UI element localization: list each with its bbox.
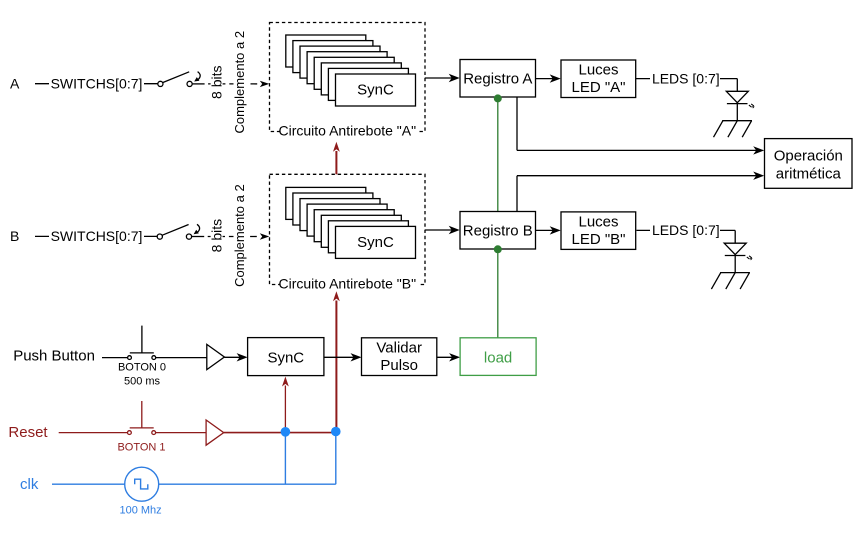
svg-text:Reset: Reset bbox=[8, 424, 48, 441]
wire Registro B to Luces LED B bbox=[536, 229, 557, 231]
svg-text:BOTON 0: BOTON 0 bbox=[118, 362, 166, 374]
block Validar Pulso bbox=[362, 338, 437, 376]
wire BOTON 0 to buffer bbox=[155, 357, 207, 359]
junction dot clk-reset 2 (blue) bbox=[331, 427, 341, 437]
svg-text:100 Mhz: 100 Mhz bbox=[119, 504, 161, 516]
debounce block B (dashed) bbox=[270, 174, 426, 284]
wire clk riser 1 (blue) bbox=[284, 432, 286, 484]
wire Validar Pulso to load bbox=[437, 356, 456, 358]
push button BOTON 0 bbox=[128, 326, 156, 360]
wire B to switch bbox=[35, 235, 158, 237]
switch SW-B bbox=[157, 224, 199, 239]
wire Registro B to Operacion aritmetica bbox=[517, 172, 764, 212]
svg-text:LEDS [0:7]: LEDS [0:7] bbox=[652, 222, 720, 238]
svg-text:Validar: Validar bbox=[376, 339, 422, 356]
wire reset-clk to debounce B (red) bbox=[333, 291, 340, 431]
block Luces LED A bbox=[561, 60, 636, 98]
block SynC (pulse) bbox=[248, 338, 324, 376]
svg-text:Complemento a 2: Complemento a 2 bbox=[232, 31, 247, 134]
svg-text:B: B bbox=[10, 228, 19, 244]
junction dot clk-reset 1 (blue) bbox=[281, 427, 291, 437]
label 8 bits (A) bbox=[211, 65, 223, 101]
label Complemento a 2 (B) bbox=[234, 184, 248, 287]
svg-text:Pulso: Pulso bbox=[380, 357, 418, 374]
wire Registro A to Operacion aritmetica bbox=[517, 97, 764, 154]
label 8 bits (B) bbox=[211, 218, 223, 254]
label Circuito Antirebote B bbox=[280, 278, 419, 292]
label LEDS [0:7] (A) bbox=[650, 71, 720, 86]
svg-text:Complemento a 2: Complemento a 2 bbox=[232, 184, 247, 287]
svg-text:8 bits: 8 bits bbox=[209, 219, 225, 252]
wire BOTON 1 to buffer bbox=[155, 432, 206, 434]
svg-text:8 bits: 8 bits bbox=[209, 65, 225, 98]
block Luces LED B bbox=[561, 212, 636, 250]
LED D-B bbox=[724, 243, 752, 272]
wire SynC to Validar Pulso bbox=[324, 356, 358, 358]
svg-text:SynC: SynC bbox=[357, 234, 394, 251]
svg-text:BOTON 1: BOTON 1 bbox=[117, 442, 165, 454]
buffer U-RST bbox=[206, 420, 224, 445]
wire load net (green) from Registro A to load box bbox=[497, 98, 499, 337]
svg-text:Circuito Antirebote "B": Circuito Antirebote "B" bbox=[279, 276, 417, 292]
label SWITCHS[0:7] (A) bbox=[49, 75, 144, 90]
wire oscillator to risers (blue) bbox=[159, 483, 336, 485]
wire debounce B to debounce A (red) bbox=[333, 142, 340, 175]
wire Luces LED B to LEDs B bbox=[637, 229, 736, 231]
junction dot Registro B load (green) bbox=[494, 245, 502, 253]
LED D-A bbox=[726, 91, 754, 120]
svg-text:Registro B: Registro B bbox=[463, 223, 533, 240]
svg-text:clk: clk bbox=[20, 476, 39, 493]
svg-text:Push Button: Push Button bbox=[13, 347, 95, 364]
block load (green) bbox=[460, 338, 536, 376]
svg-text:SynC: SynC bbox=[357, 82, 394, 99]
svg-text:LED "A": LED "A" bbox=[571, 79, 625, 96]
svg-text:LED "B": LED "B" bbox=[571, 231, 625, 248]
buffer U-PB bbox=[207, 344, 225, 369]
wire debounce B to Registro B bbox=[425, 229, 456, 231]
LED D-A ground bbox=[714, 121, 753, 138]
wire 8-bit bus B (dashed) to debounce B bbox=[192, 233, 270, 239]
wire buffer to SynC bbox=[224, 356, 243, 358]
wire debounce A to Registro A bbox=[425, 77, 456, 79]
block Operacion aritmetica bbox=[765, 139, 853, 189]
wire clk to oscillator bbox=[52, 483, 125, 485]
junction dot Registro A load (green) bbox=[494, 94, 502, 102]
wire Push Button to BOTON 0 bbox=[102, 357, 128, 359]
svg-text:Circuito Antirebote "A": Circuito Antirebote "A" bbox=[279, 122, 417, 138]
svg-text:SWITCHS[0:7]: SWITCHS[0:7] bbox=[51, 228, 143, 244]
switch SW-A bbox=[158, 72, 200, 87]
wire Registro A to Luces LED A bbox=[536, 78, 557, 80]
svg-text:Registro A: Registro A bbox=[463, 71, 532, 88]
label Circuito Antirebote A bbox=[280, 125, 419, 139]
oscillator 100 Mhz bbox=[125, 467, 159, 501]
wire buffer to junctions (red) bbox=[224, 432, 336, 434]
svg-text:500 ms: 500 ms bbox=[124, 375, 161, 387]
register Registro B bbox=[460, 212, 536, 250]
label Complemento a 2 (A) bbox=[234, 31, 248, 134]
wire Reset to BOTON 1 bbox=[59, 432, 128, 434]
svg-text:Luces: Luces bbox=[578, 213, 618, 230]
label LEDS [0:7] (B) bbox=[650, 223, 720, 238]
debounce block A (dashed) bbox=[270, 23, 426, 132]
SynC stack B bbox=[286, 187, 416, 258]
svg-text:A: A bbox=[10, 75, 20, 91]
svg-text:aritmética: aritmética bbox=[776, 166, 842, 183]
svg-text:load: load bbox=[484, 350, 512, 367]
label SWITCHS[0:7] (B) bbox=[49, 228, 144, 243]
SynC stack A bbox=[286, 35, 416, 106]
LED D-B ground bbox=[711, 273, 750, 290]
wire clk riser 2 (blue) bbox=[335, 432, 337, 485]
wire A to switch bbox=[35, 83, 158, 85]
wire 8-bit bus A (dashed) to debounce A bbox=[192, 81, 269, 87]
svg-text:Luces: Luces bbox=[578, 62, 618, 79]
svg-text:SWITCHS[0:7]: SWITCHS[0:7] bbox=[51, 75, 143, 91]
register Registro A bbox=[460, 60, 536, 98]
wire Luces LED A to LEDs A bbox=[636, 78, 738, 80]
wire junction to SynC (red) bbox=[282, 377, 289, 432]
push button BOTON 1 bbox=[127, 401, 155, 435]
svg-text:LEDS [0:7]: LEDS [0:7] bbox=[652, 70, 720, 86]
svg-text:Operación: Operación bbox=[774, 147, 843, 164]
svg-text:SynC: SynC bbox=[267, 350, 304, 367]
